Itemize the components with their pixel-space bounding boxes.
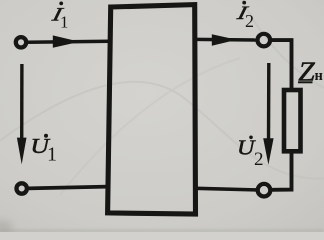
terminal (top-left) xyxy=(16,37,26,47)
voltage arrowhead U1 xyxy=(17,138,27,165)
terminal (bottom-right) xyxy=(258,184,271,197)
terminal (top-right) xyxy=(258,34,271,47)
load impedance Zн (rectangle) xyxy=(284,90,301,151)
voltage arrowhead U2 xyxy=(263,138,273,165)
label I2 xyxy=(234,1,254,31)
label Zн (load impedance, underlined Z) xyxy=(298,58,323,87)
current arrowhead I2 xyxy=(212,34,237,45)
voltage arrow U1 (line) xyxy=(20,64,24,146)
svg-text:2: 2 xyxy=(245,11,254,31)
label U2 xyxy=(237,136,264,170)
current arrowhead I1 xyxy=(53,35,80,47)
wire (terminal to load, with corner down) xyxy=(271,40,292,88)
voltage arrow U2 (line) xyxy=(267,63,271,146)
label U1 xyxy=(30,134,57,166)
wire (top-right, box to terminal) xyxy=(196,38,257,42)
terminal (bottom-left) xyxy=(17,183,27,193)
svg-text:1: 1 xyxy=(47,143,57,165)
label I1 xyxy=(49,2,68,32)
wire (top-left, terminal to box) xyxy=(27,41,110,42)
wire (bottom-right, terminal to box) xyxy=(196,188,257,190)
svg-text:1: 1 xyxy=(60,13,69,32)
svg-text:2: 2 xyxy=(254,149,264,170)
wire (bottom-left, terminal to box) xyxy=(28,187,108,189)
wire (load bottom to terminal, with corner) xyxy=(272,153,292,190)
two-port network box xyxy=(108,5,196,214)
bottom scan shadow xyxy=(0,230,324,233)
svg-text:н: н xyxy=(315,68,323,84)
